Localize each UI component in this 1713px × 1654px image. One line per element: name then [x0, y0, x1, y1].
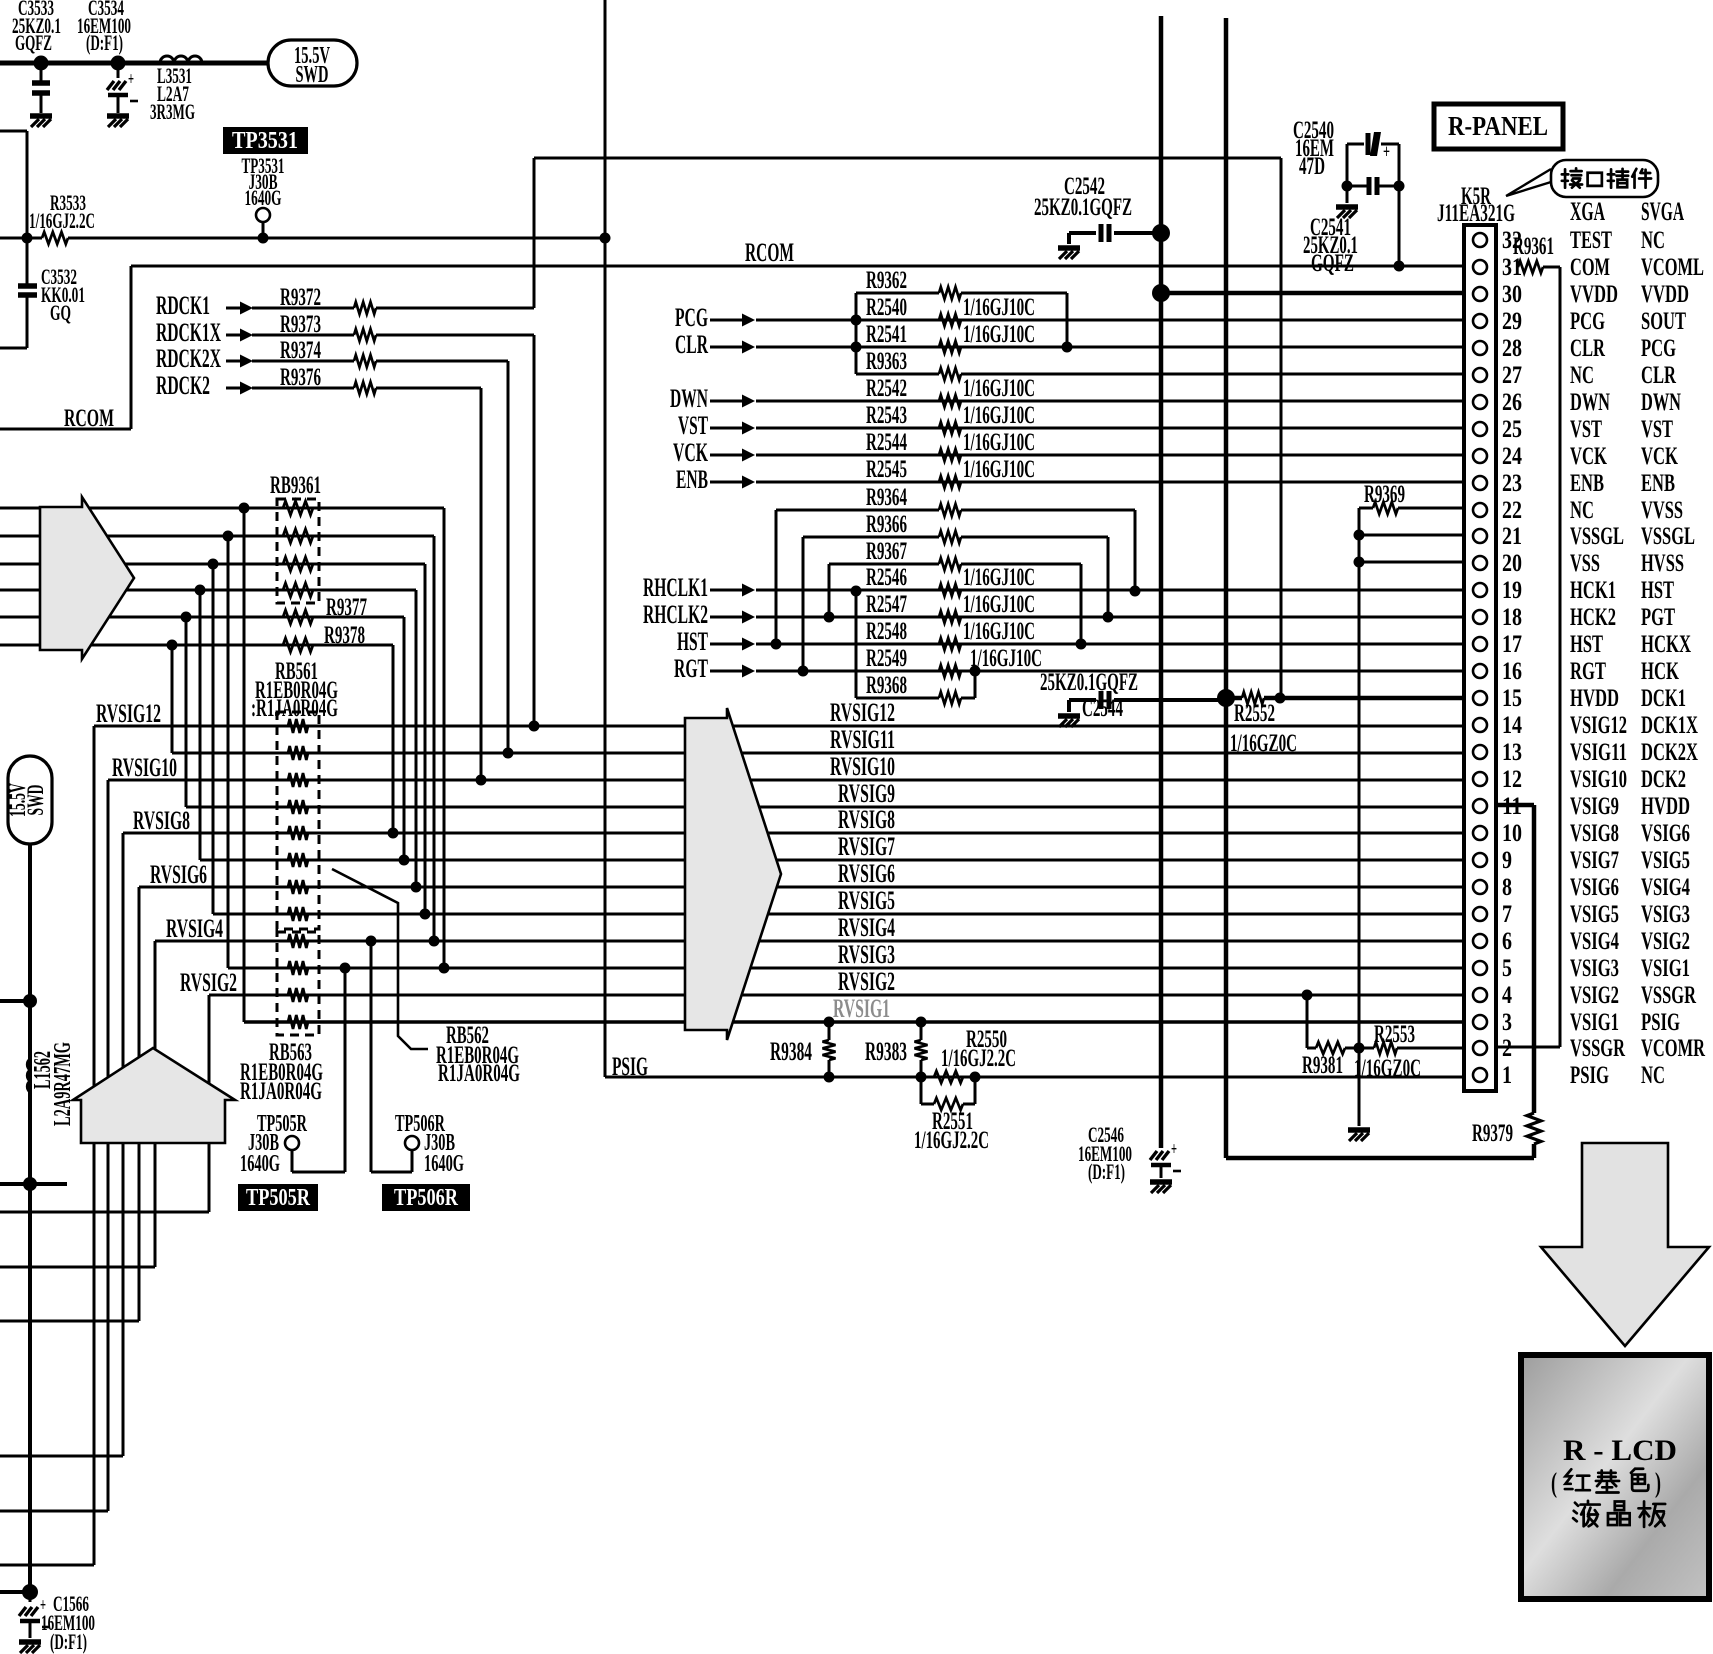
svg-text:RVSIG6: RVSIG6 — [150, 860, 207, 889]
svg-text:DWN: DWN — [670, 384, 708, 413]
svg-text:RVSIG6: RVSIG6 — [838, 859, 895, 888]
svg-text:RDCK2X: RDCK2X — [156, 344, 221, 373]
svg-text:R9381: R9381 — [1302, 1052, 1343, 1079]
svg-text:XGA: XGA — [1570, 197, 1605, 226]
resistor (RB9361 network) — [283, 529, 313, 543]
svg-text:): ) — [1655, 1468, 1661, 1499]
node ENB — [676, 465, 755, 494]
pin 26 — [1473, 389, 1681, 416]
node — [181, 612, 192, 623]
node PCG — [675, 303, 755, 332]
node VCK — [673, 438, 755, 467]
svg-text:SOUT: SOUT — [1641, 308, 1686, 335]
svg-text:RVSIG4: RVSIG4 — [838, 913, 895, 942]
wire — [403, 617, 406, 860]
svg-text:R2553: R2553 — [1374, 1021, 1415, 1048]
wire — [507, 361, 510, 753]
svg-text:(: ( — [1551, 1468, 1557, 1499]
svg-text:28: 28 — [1502, 335, 1522, 362]
wire — [756, 319, 1464, 322]
resistor R2543 — [866, 402, 1035, 434]
svg-text:21: 21 — [1502, 523, 1522, 550]
svg-text:RVSIG3: RVSIG3 — [838, 940, 895, 969]
wire PSIG — [605, 1052, 1464, 1081]
wire — [243, 508, 246, 1022]
node — [429, 936, 440, 947]
svg-text:R2546: R2546 — [866, 564, 907, 591]
svg-text:DWN: DWN — [1641, 389, 1681, 416]
wire — [415, 590, 418, 887]
svg-text:SWD: SWD — [296, 62, 329, 88]
pin 3 — [1473, 1009, 1680, 1036]
svg-text:R2543: R2543 — [866, 402, 907, 429]
ground — [107, 116, 129, 127]
node — [23, 1177, 37, 1191]
pin 14 — [1473, 712, 1698, 739]
pin 20 — [1473, 550, 1684, 577]
node — [1130, 586, 1141, 597]
wire — [756, 616, 1464, 619]
vertical bus VVDD — [1159, 16, 1164, 1148]
wire — [0, 616, 404, 619]
test point TP3531 — [223, 127, 308, 237]
wire — [208, 995, 211, 1212]
node — [824, 1017, 835, 1028]
svg-text:ENB: ENB — [1641, 470, 1675, 497]
svg-text:NC: NC — [1570, 497, 1594, 524]
svg-text:RVSIG12: RVSIG12 — [96, 699, 161, 728]
node — [1342, 181, 1353, 192]
test point TP506R — [371, 941, 464, 1177]
svg-text:J11EA321G: J11EA321G — [1437, 200, 1515, 227]
svg-text:1640G: 1640G — [240, 1151, 280, 1177]
node — [439, 963, 450, 974]
wire — [1464, 805, 1534, 1113]
wire — [199, 590, 202, 860]
capacitor C2542 — [1034, 173, 1155, 244]
wire — [1359, 534, 1464, 537]
resistor R9368 — [856, 591, 975, 704]
node — [111, 56, 126, 71]
wire RVSIG4 — [155, 940, 1464, 943]
label RVSIG8 — [133, 806, 190, 835]
svg-text:1/16GJ2.2C: 1/16GJ2.2C — [29, 208, 95, 233]
svg-text:2: 2 — [1502, 1035, 1512, 1062]
svg-text:16: 16 — [1502, 658, 1522, 685]
label RVSIG8 — [838, 805, 895, 834]
wire RVSIG2 — [209, 994, 1464, 997]
svg-text:RVSIG4: RVSIG4 — [166, 914, 223, 943]
svg-text:R2540: R2540 — [866, 294, 907, 321]
wire — [0, 1510, 108, 1513]
svg-text:VSIG1: VSIG1 — [1641, 955, 1690, 982]
svg-text:HCKX: HCKX — [1641, 631, 1691, 658]
svg-text:TP3531: TP3531 — [232, 128, 298, 154]
wire — [0, 61, 270, 66]
svg-text:HVDD: HVDD — [1641, 793, 1690, 820]
svg-text:25KZ0.1GQFZ: 25KZ0.1GQFZ — [1040, 669, 1138, 696]
wire — [756, 643, 1464, 646]
svg-text:VSSGL: VSSGL — [1570, 523, 1624, 550]
svg-text:29: 29 — [1502, 308, 1522, 335]
svg-text:VSIG11: VSIG11 — [1570, 739, 1627, 766]
svg-text:R9383: R9383 — [865, 1037, 907, 1066]
wire — [0, 999, 30, 1003]
svg-text:TP506R: TP506R — [394, 1185, 459, 1211]
svg-text:R2547: R2547 — [866, 591, 907, 618]
wire RCOM — [131, 238, 1464, 267]
capacitor C3534 — [77, 0, 138, 113]
wire — [424, 564, 427, 914]
svg-text:R1JA0R04G: R1JA0R04G — [438, 1060, 520, 1087]
wire RVSIG11 — [172, 752, 1464, 755]
svg-text:VSIG3: VSIG3 — [1641, 901, 1690, 928]
svg-text:ENB: ENB — [1570, 470, 1604, 497]
resistor (RB563 network) — [288, 1015, 308, 1029]
svg-text:COM: COM — [1570, 254, 1610, 281]
svg-text:VSIG8: VSIG8 — [1570, 820, 1619, 847]
svg-text:R9377: R9377 — [326, 594, 367, 621]
svg-text:VSIG4: VSIG4 — [1570, 928, 1619, 955]
svg-text:11: 11 — [1502, 793, 1522, 820]
svg-text:27: 27 — [1502, 362, 1522, 389]
svg-text:RCOM: RCOM — [64, 405, 114, 432]
wire — [1359, 561, 1464, 564]
svg-text:VSS: VSS — [1570, 550, 1600, 577]
resistor (RB561 network) — [288, 826, 308, 840]
resistor R9372 — [252, 284, 534, 314]
label RVSIG3 — [838, 940, 895, 969]
svg-text:VST: VST — [1641, 416, 1673, 443]
wire RVSIG5 — [213, 913, 1464, 916]
svg-text:RVSIG10: RVSIG10 — [830, 752, 895, 781]
resistor network RB9361 — [270, 472, 321, 603]
label RVSIG4 — [166, 914, 223, 943]
node — [529, 721, 540, 732]
svg-text:R2548: R2548 — [866, 618, 907, 645]
resistor R9378 — [283, 622, 365, 652]
svg-text:DWN: DWN — [1570, 389, 1610, 416]
svg-text:VSSGR: VSSGR — [1641, 982, 1697, 1009]
resistor (RB561 network) — [288, 773, 308, 787]
resistor R3533 — [0, 190, 606, 244]
svg-text:PGT: PGT — [1641, 604, 1675, 631]
svg-text:1/16GJ10C: 1/16GJ10C — [963, 618, 1035, 645]
label RVSIG6 — [150, 860, 207, 889]
svg-text:14: 14 — [1502, 712, 1522, 739]
node — [1076, 639, 1087, 650]
svg-text:(D:F1): (D:F1) — [50, 1629, 87, 1654]
pin 6 — [1473, 928, 1690, 955]
capacitor C2546 — [1078, 1122, 1181, 1184]
svg-text:7: 7 — [1502, 901, 1512, 928]
bus arrow right (RDCK group) — [40, 497, 134, 659]
svg-text:47D: 47D — [1299, 153, 1325, 180]
vertical bus HVDD — [1226, 18, 1534, 1158]
pin 22 — [1473, 497, 1683, 524]
svg-text:+: + — [1171, 1139, 1177, 1160]
wire — [28, 844, 32, 1592]
node — [34, 56, 49, 71]
svg-text:R2544: R2544 — [866, 429, 907, 456]
resistor R9376 — [252, 364, 481, 394]
resistor (RB9361 network) — [283, 583, 313, 597]
svg-text:VSSGR: VSSGR — [1570, 1035, 1626, 1062]
svg-text:L2A9R47MG: L2A9R47MG — [50, 1042, 76, 1126]
svg-text:R9378: R9378 — [324, 622, 365, 649]
svg-text:HVSS: HVSS — [1641, 550, 1684, 577]
wire — [0, 1564, 94, 1567]
capacitor C3532 — [0, 238, 85, 348]
svg-text:RHCLK2: RHCLK2 — [643, 600, 708, 629]
resistor (RB563 network) — [288, 988, 308, 1002]
wire — [1358, 508, 1361, 1049]
wire — [392, 645, 395, 833]
resistor R9374 — [252, 337, 508, 367]
svg-text:VSIG5: VSIG5 — [1641, 847, 1690, 874]
pin 7 — [1473, 901, 1690, 928]
svg-text:13: 13 — [1502, 739, 1522, 766]
svg-text:VST: VST — [1570, 416, 1602, 443]
resistor R2546 — [866, 564, 1035, 596]
svg-text:VSIG3: VSIG3 — [1570, 955, 1619, 982]
svg-text:RDCK1: RDCK1 — [156, 291, 210, 320]
svg-text:R9363: R9363 — [866, 348, 907, 375]
label RVSIG12 — [830, 698, 895, 727]
ground — [30, 116, 52, 127]
svg-text:VSIG10: VSIG10 — [1570, 766, 1627, 793]
svg-text:DCK2X: DCK2X — [1641, 739, 1698, 766]
svg-text:TEST: TEST — [1570, 227, 1612, 254]
node RDCK1 — [156, 291, 253, 320]
resistor (RB563 network) — [288, 934, 308, 948]
wire — [534, 157, 1281, 160]
label RVSIG1 — [833, 994, 890, 1023]
wire — [756, 346, 1464, 349]
resistor R2552 — [1226, 692, 1464, 757]
wire — [1496, 1046, 1560, 1049]
svg-text:PSIG: PSIG — [612, 1052, 648, 1081]
node — [916, 1072, 927, 1083]
pin 2 — [1473, 1035, 1706, 1062]
node — [411, 882, 422, 893]
resistor (RB561 network) — [288, 907, 308, 921]
svg-text:1640G: 1640G — [245, 185, 282, 210]
resistor R9362 — [856, 267, 1067, 374]
svg-text:VCOMR: VCOMR — [1641, 1035, 1706, 1062]
wire — [107, 780, 110, 1511]
resistor R2540 — [866, 294, 1035, 326]
wire — [533, 158, 536, 308]
svg-text:3: 3 — [1502, 1009, 1512, 1036]
ground — [1336, 207, 1358, 218]
pin 31 — [1473, 254, 1704, 281]
callout interface connector — [1506, 160, 1658, 197]
bus arrow right (RVSIG group) — [685, 708, 781, 1040]
svg-text:CLR: CLR — [1641, 362, 1677, 389]
node RHCLK1 — [643, 573, 755, 602]
svg-text:31: 31 — [1502, 254, 1522, 281]
svg-text:VSIG5: VSIG5 — [1570, 901, 1619, 928]
svg-text:RB9361: RB9361 — [270, 472, 321, 499]
wire — [443, 508, 446, 968]
node — [970, 666, 981, 677]
wire — [0, 1211, 209, 1214]
svg-text:RVSIG1: RVSIG1 — [833, 994, 890, 1023]
resistor network RB563 — [240, 932, 323, 1105]
wire — [0, 1320, 139, 1323]
resistor R9364 — [776, 484, 1135, 644]
svg-text:1/16GJ10C: 1/16GJ10C — [963, 429, 1035, 456]
pin 5 — [1473, 955, 1690, 982]
wire — [1398, 186, 1401, 266]
svg-text:VSIG2: VSIG2 — [1641, 928, 1690, 955]
resistor R9377 — [283, 594, 367, 624]
svg-text:PCG: PCG — [1570, 308, 1605, 335]
svg-text:RCOM: RCOM — [745, 238, 794, 267]
svg-text:VVDD: VVDD — [1570, 281, 1618, 308]
wire — [0, 1182, 67, 1186]
svg-text:1/16GJ10C: 1/16GJ10C — [963, 375, 1035, 402]
pin 16 — [1473, 658, 1679, 685]
svg-text:25: 25 — [1502, 416, 1522, 443]
wire — [154, 941, 157, 1267]
svg-text:(D:F1): (D:F1) — [1088, 1159, 1125, 1184]
svg-text:1/16GJ10C: 1/16GJ10C — [963, 294, 1035, 321]
svg-text:VSIG9: VSIG9 — [1570, 793, 1619, 820]
svg-text:PCG: PCG — [1641, 335, 1676, 362]
node DWN — [670, 384, 755, 413]
svg-text:5: 5 — [1502, 955, 1512, 982]
svg-text:17: 17 — [1502, 631, 1522, 658]
pin 1 — [1473, 1062, 1665, 1089]
wire — [756, 454, 1464, 457]
node — [600, 233, 611, 244]
wire — [93, 726, 96, 1565]
node — [208, 559, 219, 570]
node — [388, 828, 399, 839]
svg-text:9: 9 — [1502, 847, 1512, 874]
pin 9 — [1473, 847, 1690, 874]
svg-text:VSIG4: VSIG4 — [1641, 874, 1690, 901]
svg-text:VCK: VCK — [673, 438, 708, 467]
label RVSIG11 — [830, 725, 895, 754]
wire RVSIG7 — [200, 859, 1464, 862]
wire — [1358, 1049, 1361, 1126]
pin 24 — [1473, 443, 1678, 470]
node RCOM — [0, 266, 131, 432]
node RGT — [674, 654, 755, 683]
wire — [756, 481, 1464, 484]
svg-text:R9362: R9362 — [866, 267, 907, 294]
svg-text:1/16GJ2.2C: 1/16GJ2.2C — [914, 1127, 989, 1154]
svg-text:PCG: PCG — [675, 303, 708, 332]
resistor (RB563 network) — [288, 961, 308, 975]
svg-text:+: + — [128, 69, 134, 90]
resistor R9384 — [770, 1022, 836, 1077]
resistor R9383 — [865, 1022, 928, 1077]
block R-LCD panel — [1521, 1355, 1709, 1599]
svg-text:1640G: 1640G — [424, 1151, 464, 1177]
resistor R9379 — [1472, 1113, 1541, 1158]
ground — [1058, 248, 1080, 259]
resistor R9363 — [856, 348, 1464, 380]
svg-text:R9367: R9367 — [866, 538, 907, 565]
pin 21 — [1473, 523, 1695, 550]
svg-text:VSIG1: VSIG1 — [1570, 1009, 1619, 1036]
resistor (RB561 network) — [288, 746, 308, 760]
node — [824, 1072, 835, 1083]
wire — [122, 833, 125, 1456]
svg-text:15: 15 — [1502, 685, 1522, 712]
svg-text:VSIG2: VSIG2 — [1570, 982, 1619, 1009]
svg-text:R2541: R2541 — [866, 321, 907, 348]
label RVSIG4 — [838, 913, 895, 942]
svg-text:1: 1 — [1502, 1062, 1512, 1089]
pin 29 — [1473, 308, 1686, 335]
resistor (RB9361 network) — [283, 557, 313, 571]
wire — [433, 536, 436, 941]
resistor R2547 — [866, 591, 1035, 623]
pin 13 — [1473, 739, 1698, 766]
svg-text:3R3MG: 3R3MG — [150, 99, 195, 124]
svg-text:R - LCD: R - LCD — [1563, 1434, 1677, 1467]
resistor R2544 — [866, 429, 1035, 461]
node — [167, 640, 178, 651]
node — [223, 531, 234, 542]
node — [1394, 181, 1405, 192]
svg-text:24: 24 — [1502, 443, 1522, 470]
svg-text:12: 12 — [1502, 766, 1522, 793]
resistor R9367 — [829, 538, 1081, 644]
label RVSIG12 — [96, 699, 161, 728]
wire — [0, 507, 444, 510]
svg-text:1/16GJ2.2C: 1/16GJ2.2C — [941, 1045, 1016, 1072]
svg-text:R2552: R2552 — [1234, 700, 1275, 727]
svg-text:R1JA0R04G: R1JA0R04G — [240, 1078, 322, 1105]
node — [1103, 612, 1114, 623]
svg-text:SVGA: SVGA — [1641, 197, 1684, 226]
svg-text:CLR: CLR — [675, 330, 708, 359]
svg-text:4: 4 — [1502, 982, 1512, 1009]
svg-text:NC: NC — [1641, 227, 1665, 254]
pin 19 — [1473, 577, 1674, 604]
wire RVSIG1 — [244, 1020, 1464, 1024]
svg-text:R2549: R2549 — [866, 645, 907, 672]
svg-text:DCK2: DCK2 — [1641, 766, 1686, 793]
capacitor C2541 — [1303, 177, 1399, 277]
node — [1152, 284, 1170, 302]
svg-text:VSIG12: VSIG12 — [1570, 712, 1627, 739]
node — [23, 994, 37, 1008]
svg-text:HCK2: HCK2 — [1570, 604, 1616, 631]
node — [476, 775, 487, 786]
svg-text:RVSIG8: RVSIG8 — [838, 805, 895, 834]
node — [1354, 530, 1365, 541]
wire — [756, 589, 1464, 592]
node — [771, 639, 782, 650]
wire — [0, 1590, 30, 1594]
svg-text:VST: VST — [678, 411, 708, 440]
svg-text:RVSIG11: RVSIG11 — [830, 725, 895, 754]
svg-text:VVDD: VVDD — [1641, 281, 1689, 308]
svg-text:RVSIG2: RVSIG2 — [180, 968, 237, 997]
svg-text:30: 30 — [1502, 281, 1522, 308]
resistor R9361 — [1513, 233, 1560, 273]
svg-text:PSIG: PSIG — [1641, 1009, 1680, 1036]
node — [340, 963, 351, 974]
wire — [480, 388, 483, 780]
